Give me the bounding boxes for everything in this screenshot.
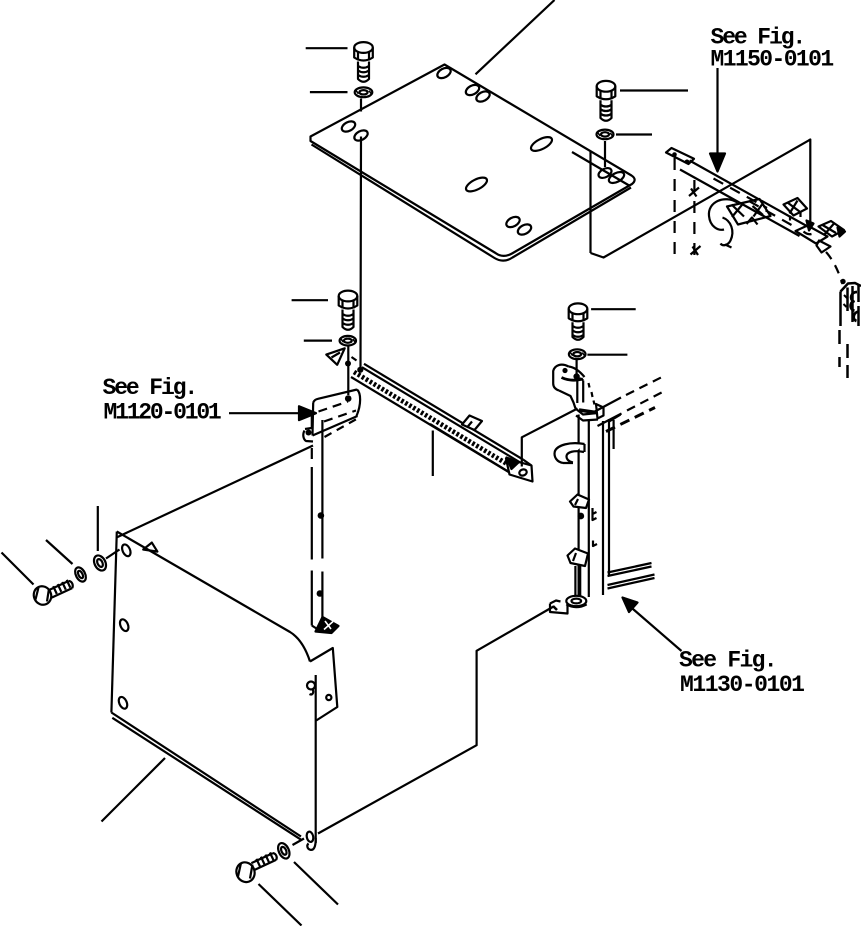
projection line from top-right bolt to plate holes <box>604 141 606 167</box>
lock washer <box>73 566 88 584</box>
panel corner curl bottom right <box>307 838 315 850</box>
channel assembly verticals (M1130) <box>577 415 579 600</box>
left bolt shank with threads <box>48 581 72 598</box>
dashed vertical hidden line left <box>673 158 675 259</box>
wire hook curve <box>709 199 738 230</box>
hidden dashed diagonal behind duct <box>325 419 358 438</box>
leader lines for mid-left bolt <box>292 299 328 301</box>
washer for top-right bolt <box>597 130 614 140</box>
leader lines at bottom <box>259 884 302 926</box>
big panel top edge <box>117 532 310 662</box>
post bolt holes <box>318 512 325 519</box>
bolt top-right: hex head <box>597 81 616 121</box>
hidden dashes along bar <box>714 179 768 209</box>
plate hole pair upper <box>464 83 481 98</box>
big panel right edge <box>315 675 317 843</box>
clip on middle of rail <box>462 416 482 431</box>
washer for top-left bolt <box>355 87 373 97</box>
plate slot center <box>529 134 554 153</box>
plate hole pair bottom <box>505 215 522 230</box>
left bolt assembly <box>2 506 120 608</box>
hidden chord dashes upper right of channel <box>592 398 621 414</box>
bottom washer <box>276 841 292 860</box>
M1120 mounting duct <box>303 390 360 442</box>
M1150 label arrow <box>716 68 718 155</box>
top cover plate outline <box>311 65 635 256</box>
svg-text:M1120-0101: M1120-0101 <box>104 400 221 426</box>
panel holes left edge <box>120 543 132 557</box>
bottom bolt assembly <box>233 839 338 926</box>
leader line bottom left <box>102 758 166 822</box>
hole near bottom right corner <box>306 831 314 843</box>
projection line from top-left bolt down to rail <box>359 99 362 368</box>
small mark upper <box>689 188 699 197</box>
bottom bolt shank with threads <box>251 853 276 870</box>
small box bracket at channel bottom left <box>550 604 568 614</box>
M1150 backing sheet left edge <box>589 152 591 254</box>
connector dash washer to hole <box>293 839 305 846</box>
post foot <box>312 626 321 632</box>
M1150 backing sheet bottom/diagonal edge <box>591 140 811 258</box>
M1150 cross bar edges <box>690 161 809 228</box>
plate edge thickness near right corner <box>572 152 630 186</box>
big diagonal from panel corner to duct <box>117 446 314 538</box>
projection line from mid-right bolt <box>575 360 577 374</box>
clip plate on bar <box>727 199 771 225</box>
bottom bolt head <box>233 860 257 885</box>
dashed link curve to corner channel <box>826 252 843 284</box>
top cover plate thickness edge <box>312 145 632 261</box>
washer for mid-right bolt <box>569 349 586 359</box>
bolt mid-left: hex head <box>339 291 358 330</box>
short frame lines right of channel top <box>612 420 614 449</box>
leader lines for mid-right bolt <box>591 308 636 310</box>
clamp step lower <box>568 549 589 567</box>
bolt mid-left: threaded shank <box>343 310 354 330</box>
big panel left edge <box>111 532 116 713</box>
flat washer <box>92 553 109 572</box>
dashed vertical hidden line right <box>693 180 695 256</box>
panel side flap <box>310 648 337 721</box>
bolt top-left: hex head <box>354 42 373 82</box>
small hook tab under duct <box>305 428 312 429</box>
part leader tick below rail <box>432 431 434 477</box>
plate hole pair left (under bolt) <box>340 119 357 134</box>
clamp step middle <box>570 495 589 509</box>
L-bracket above channel <box>553 365 603 421</box>
frame rails right of channel <box>608 563 652 576</box>
bolt mid-right: hex head <box>569 303 588 339</box>
M1130 label arrow <box>630 606 682 651</box>
link from rail end up to channel <box>522 409 578 467</box>
rear frame outline (channel foot to panel corner) <box>318 607 554 834</box>
bolt top-right: threaded shank <box>601 100 612 120</box>
rail right end foot <box>523 460 532 466</box>
M1120 label leader and arrow <box>229 412 299 414</box>
leader line to top area (off page) <box>476 0 555 74</box>
end clip right <box>819 221 845 237</box>
end tail tab <box>817 241 831 253</box>
svg-text:See Fig.: See Fig. <box>103 375 197 401</box>
svg-text:M1130-0101: M1130-0101 <box>680 672 804 698</box>
bolt top-left: threaded shank <box>358 62 369 82</box>
clip box on bar <box>784 198 808 216</box>
bar end cap <box>796 226 828 244</box>
support rail left tab <box>326 348 344 365</box>
M1120 post right edge <box>321 420 323 628</box>
plate slot lower-left <box>464 175 489 194</box>
channel hole dots and tabs <box>577 513 584 520</box>
channel foot <box>566 596 586 606</box>
plate hole at top corner <box>436 66 453 81</box>
M1120 post left edge <box>311 415 313 429</box>
svg-text:See Fig.: See Fig. <box>679 648 776 674</box>
support rail lines <box>364 364 523 460</box>
clamp hook top <box>555 443 585 463</box>
projection line from mid-left bolt to support <box>347 347 349 396</box>
channel inner verticals lower <box>575 566 580 597</box>
leader lines for top-left bolt <box>306 47 348 49</box>
left bolt head <box>31 583 55 607</box>
M1150 cross bar left tab <box>666 148 694 164</box>
small mark lower <box>691 246 701 255</box>
svg-text:M1150-0101: M1150-0101 <box>711 46 834 72</box>
bolt mid-right: threaded shank <box>573 322 584 339</box>
plate hole pair right <box>597 166 613 180</box>
small arrowhead at sheet lower right <box>807 221 814 231</box>
small triangle notch on panel <box>143 543 157 552</box>
washer for mid-left bolt <box>340 336 356 346</box>
leader lines for top-right bolt <box>620 89 688 91</box>
leader lines for left bolt group <box>2 553 34 585</box>
big panel bottom edge double <box>111 713 301 837</box>
corner channel piece at right edge <box>840 279 861 378</box>
